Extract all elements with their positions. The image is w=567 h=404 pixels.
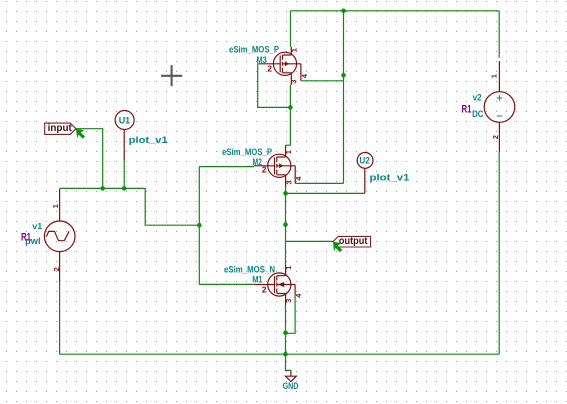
svg-text:M2: M2	[253, 157, 263, 167]
svg-text:3: 3	[284, 180, 293, 184]
svg-text:2: 2	[267, 64, 272, 74]
svg-text:1: 1	[284, 150, 293, 154]
svg-text:GND: GND	[283, 381, 299, 391]
svg-text:2: 2	[262, 285, 267, 295]
svg-text:DC: DC	[472, 109, 484, 119]
svg-text:3: 3	[289, 80, 298, 84]
svg-text:M3: M3	[257, 55, 267, 65]
svg-text:3: 3	[284, 299, 293, 303]
svg-text:eSim_MOS_N: eSim_MOS_N	[224, 265, 275, 275]
svg-text:v2: v2	[473, 93, 482, 103]
svg-text:2: 2	[52, 267, 61, 271]
svg-text:1: 1	[51, 204, 60, 208]
svg-text:1: 1	[490, 74, 499, 78]
svg-text:input: input	[48, 123, 73, 134]
svg-text:R1: R1	[462, 104, 472, 116]
svg-text:R1: R1	[21, 231, 31, 243]
svg-text:2: 2	[491, 135, 500, 139]
svg-text:1: 1	[289, 48, 298, 52]
svg-text:M1: M1	[252, 275, 262, 285]
svg-text:output: output	[339, 236, 368, 247]
svg-text:eSim_MOS_P: eSim_MOS_P	[222, 147, 272, 157]
svg-text:1: 1	[284, 266, 293, 270]
svg-text:plot_v1: plot_v1	[129, 135, 168, 145]
svg-text:eSim_MOS_P: eSim_MOS_P	[229, 44, 279, 54]
svg-text:U2: U2	[359, 156, 369, 166]
svg-text:plot_v1: plot_v1	[370, 173, 410, 183]
svg-text:v1: v1	[32, 222, 43, 231]
svg-text:2: 2	[262, 165, 267, 175]
svg-text:U1: U1	[119, 116, 131, 126]
